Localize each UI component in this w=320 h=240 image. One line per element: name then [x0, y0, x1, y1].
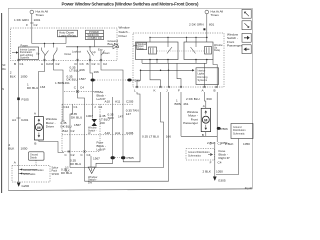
svg-text:P806: P806: [221, 127, 229, 131]
relay K2 coil box: [205, 47, 212, 55]
svg-text:163: 163: [40, 85, 45, 89]
page border frame: [8, 8, 252, 190]
svg-text:Bus Bar: Bus Bar: [108, 42, 119, 46]
motor driver M1: [34, 117, 43, 140]
relay K2 window-up assembly box: [184, 42, 213, 60]
nav button 1: [242, 9, 251, 18]
wire LT BLU splice: [90, 60, 93, 119]
motor passenger M2: [201, 108, 210, 131]
wire to triangle: [90, 156, 92, 167]
svg-text:DK BLU: DK BLU: [67, 78, 78, 82]
relay K1 armature: [149, 47, 157, 54]
switch S2 passenger-control contacts: [90, 47, 94, 56]
svg-text:1 BRN: 1 BRN: [55, 81, 64, 85]
stub coil to dashed edge: [133, 45, 137, 47]
wire L loop: [123, 92, 140, 162]
svg-text:1007: 1007: [86, 114, 93, 118]
svg-text:BRN: BRN: [175, 102, 182, 106]
wire feed bus: [32, 43, 66, 45]
ground bus bar terminal: [113, 45, 116, 49]
circuit breaker CB1: [92, 119, 98, 126]
wire TAN jog: [101, 60, 123, 156]
wire J drop: [168, 63, 170, 87]
wire fuse col left: [70, 104, 72, 167]
wire B drop with jog: [213, 60, 217, 88]
svg-text:461: 461: [65, 81, 70, 85]
svg-text:1567: 1567: [74, 123, 81, 127]
ground distribution dashed ref box right: [186, 149, 215, 160]
wire F drop with jog: [177, 63, 181, 87]
svg-text:B12: B12: [63, 129, 69, 133]
svg-text:1 DK GRN: 1 DK GRN: [14, 18, 29, 22]
relay K1 window-down assembly box: [136, 42, 179, 60]
scan edge line: [1, 13, 3, 193]
svg-text:C2: C2: [34, 23, 38, 27]
auto down logic box U1: [58, 30, 78, 37]
svg-text:1567: 1567: [93, 157, 100, 161]
nav button 4 left arrow: [242, 45, 251, 54]
arrow into lamps ref: [12, 52, 16, 54]
wire B ground lower: [214, 142, 216, 177]
battery feed terminal circle: [30, 10, 34, 14]
svg-text:C3: C3: [80, 62, 84, 66]
svg-text:C4: C4: [87, 153, 91, 157]
svg-text:1050: 1050: [21, 147, 28, 151]
svg-text:1050: 1050: [21, 75, 28, 79]
svg-text:B: B: [34, 142, 36, 146]
svg-text:G305: G305: [218, 179, 226, 183]
nav button 3 right arrow: [242, 33, 251, 42]
svg-text:M: M: [51, 62, 54, 66]
battery feed circle passenger: [205, 10, 209, 14]
splice dotted link: [95, 79, 128, 81]
connector row C206: [62, 134, 133, 136]
svg-text:Driver: Driver: [119, 34, 127, 38]
wire K loop: [70, 92, 164, 168]
svg-text:P505: P505: [127, 156, 135, 160]
ground distribution solid box right: [231, 124, 253, 139]
relay link dotted: [157, 50, 204, 52]
bottom border line: [8, 189, 252, 191]
svg-text:C201: C201: [21, 118, 29, 122]
wire BRN: [54, 60, 64, 121]
wire K drop with jog: [150, 63, 161, 87]
arrows and text inside: [19, 169, 38, 171]
relay K2 contact: [191, 47, 196, 54]
splice P105: [17, 98, 20, 101]
svg-text:Ground Distribution: Ground Distribution: [23, 169, 44, 172]
svg-text:C206: C206: [126, 131, 134, 135]
svg-text:B: B: [214, 89, 216, 93]
svg-text:Power: Power: [21, 43, 28, 47]
svg-text:2 DK GRN: 2 DK GRN: [189, 22, 204, 26]
svg-text:Fig 42: Fig 42: [245, 186, 253, 190]
nav button 2: [242, 21, 251, 30]
relay K1 coil box: [137, 42, 147, 49]
svg-text:C2: C2: [71, 153, 75, 157]
svg-text:C2: C2: [103, 62, 107, 66]
svg-text:BLK: BLK: [10, 75, 17, 79]
crossing marks fuse box bottom: [68, 150, 86, 152]
svg-text:461: 461: [183, 102, 188, 106]
svg-text:A10: A10: [105, 100, 111, 104]
wire B ground: [216, 92, 218, 142]
svg-text:166: 166: [94, 70, 99, 74]
wire J loop: [85, 92, 169, 181]
svg-text:160: 160: [100, 121, 105, 125]
ground bus bar wire: [66, 46, 113, 48]
svg-text:B: B: [87, 62, 89, 66]
motor ground wire: [39, 140, 64, 153]
svg-text:Down: Down: [103, 51, 110, 55]
svg-text:1050: 1050: [216, 170, 223, 174]
svg-text:660: 660: [207, 97, 212, 101]
table box U2: [86, 30, 104, 39]
wire A10: [112, 97, 114, 158]
svg-text:A4: A4: [12, 118, 16, 122]
splice P806: [217, 127, 221, 130]
svg-text:Schematic: Schematic: [233, 132, 245, 135]
ground G200: [17, 183, 21, 187]
svg-text:1567: 1567: [79, 77, 86, 81]
ground distribution dashed box left: [12, 166, 50, 183]
svg-text:Relay: Relay: [214, 49, 221, 52]
svg-text:147: 147: [118, 115, 123, 119]
wire stub box: [65, 37, 67, 44]
svg-text:166: 166: [80, 68, 85, 72]
svg-text:Schematics: Schematics: [188, 154, 202, 157]
splice dot P503 left: [91, 79, 95, 82]
svg-text:A10: A10: [105, 131, 111, 135]
svg-text:Systems: Systems: [198, 79, 208, 82]
callout box: [29, 152, 45, 160]
svg-text:C1: C1: [74, 105, 78, 109]
svg-text:LT BLU: LT BLU: [70, 68, 80, 72]
svg-text:A11: A11: [115, 131, 121, 135]
svg-text:S0: S0: [2, 63, 6, 67]
top bus passenger: [150, 36, 207, 38]
motor passenger bottom stub: [205, 132, 207, 137]
svg-text:G200: G200: [22, 184, 30, 188]
triangle symbol window switch ref: [88, 167, 95, 174]
wire BLK ground driver: [18, 60, 20, 164]
svg-text:C205: C205: [126, 100, 134, 104]
wire DK BLU to driver motor: [39, 60, 45, 117]
svg-text:Passenger: Passenger: [183, 121, 198, 125]
wire DK BLU fuse col: [77, 60, 79, 92]
svg-text:Left IP: Left IP: [97, 148, 106, 152]
svg-text:C4: C4: [80, 86, 84, 90]
svg-text:Times: Times: [211, 13, 220, 17]
connector row C4 dashed: [64, 91, 101, 93]
svg-text:F: F: [26, 23, 28, 27]
svg-text:L: L: [134, 89, 136, 93]
ground G305: [213, 177, 217, 181]
svg-text:2 BLK: 2 BLK: [203, 170, 212, 174]
relay K1 contact: [167, 47, 172, 54]
wire A to passenger motor: [205, 92, 206, 108]
splice dot P503 right: [127, 79, 131, 82]
svg-text:Schematics: Schematics: [23, 173, 36, 176]
svg-text:Driver: Driver: [46, 125, 54, 129]
svg-text:DK BLU: DK BLU: [70, 162, 81, 166]
interior lights box: [196, 68, 219, 85]
wire feed driver: [31, 14, 33, 44]
svg-text:C1: C1: [20, 62, 24, 66]
svg-text:B: B: [202, 133, 204, 137]
fuse block left dashed box: [61, 104, 63, 151]
svg-text:N: N: [2, 87, 4, 91]
svg-text:2 DK BLU: 2 DK BLU: [186, 97, 200, 101]
switch S1 driver window contacts: [44, 43, 45, 44]
svg-text:P105: P105: [22, 98, 30, 102]
wire through box: [18, 164, 20, 182]
wire L drop with jog: [137, 70, 141, 87]
svg-text:C1: C1: [218, 142, 222, 146]
svg-text:RA: RA: [2, 67, 6, 71]
svg-text:B: B: [14, 62, 16, 66]
window switch front passenger box: [133, 33, 224, 87]
lower bus passenger: [142, 62, 207, 64]
svg-text:TAN: TAN: [108, 116, 114, 120]
svg-text:Distrib: Distrib: [30, 157, 37, 160]
svg-text:Up: Up: [93, 50, 97, 54]
svg-text:DK BLU: DK BLU: [27, 86, 38, 90]
window switch driver box: [11, 28, 118, 61]
svg-text:Power Window Schematics (Windo: Power Window Schematics (Window Switches…: [62, 2, 200, 7]
svg-text:BLK: BLK: [65, 170, 70, 173]
crossing marks on driver box bottom: [17, 59, 102, 61]
svg-text:DK BLU: DK BLU: [61, 125, 72, 129]
svg-text:C12: C12: [64, 105, 70, 109]
interior lights ref wire: [141, 69, 195, 71]
svg-text:Relay: Relay: [138, 47, 145, 50]
svg-text:801: 801: [209, 22, 214, 26]
crossing marks passenger box bottom: [136, 86, 218, 88]
svg-text:147: 147: [126, 112, 131, 116]
svg-text:C4: C4: [98, 105, 102, 109]
svg-text:Up: Up: [36, 52, 40, 56]
wire from right box: [216, 139, 239, 175]
connector row C205: [62, 103, 133, 105]
svg-text:F: F: [210, 160, 212, 164]
svg-text:F: F: [178, 89, 180, 93]
svg-text:Systems: Systems: [20, 57, 30, 60]
svg-text:Lockout: Lockout: [72, 50, 81, 54]
svg-text:1001: 1001: [34, 18, 41, 22]
wire feed passenger: [206, 14, 208, 38]
svg-text:Down: Down: [65, 52, 72, 56]
svg-text:Times: Times: [36, 13, 45, 17]
splice square S: [203, 28, 205, 30]
svg-text:Passenger: Passenger: [227, 44, 242, 48]
svg-text:C2: C2: [56, 62, 60, 66]
relay bottom junction dots: [149, 59, 151, 61]
wire A drop: [204, 63, 206, 87]
svg-text:BLK: BLK: [9, 147, 16, 151]
svg-text:1050: 1050: [243, 142, 250, 146]
interior lamps reference box: [19, 47, 39, 60]
svg-text:2 BLK: 2 BLK: [225, 142, 234, 146]
svg-text:C2: C2: [92, 62, 96, 66]
svg-text:A11: A11: [115, 100, 121, 104]
svg-text:DK BLU: DK BLU: [71, 116, 82, 120]
wire stub box2: [94, 40, 96, 47]
splice P505 dots: [111, 156, 115, 159]
svg-text:0.35 LT BLU: 0.35 LT BLU: [142, 135, 159, 139]
svg-text:C4: C4: [218, 160, 222, 164]
svg-text:SP200: SP200: [52, 173, 60, 176]
wire F down: [180, 92, 182, 112]
svg-text:Logic+Relay: Logic+Relay: [59, 33, 77, 37]
svg-text:C2: C2: [71, 129, 75, 133]
